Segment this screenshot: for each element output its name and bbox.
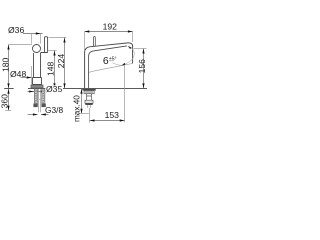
svg-text:max.40: max.40	[72, 95, 81, 122]
svg-text:180: 180	[0, 57, 10, 72]
svg-text:360: 360	[0, 94, 10, 109]
outlet extension line to 153 dim	[124, 65, 126, 122]
dim Ø36 extension lines	[32, 34, 41, 44]
dim 153 line	[90, 120, 125, 122]
dim 153 arrows	[90, 119, 95, 121]
angle 6° dimension arc	[122, 46, 135, 65]
svg-text:Ø35: Ø35	[46, 84, 62, 94]
svg-text:192: 192	[103, 22, 118, 32]
base tier 1	[33, 78, 42, 85]
dim G3/8 left segment with arrow	[28, 114, 38, 116]
svg-text:G3/8: G3/8	[45, 105, 63, 115]
spout outer outline	[85, 43, 133, 88]
dim max.40 extension line	[78, 113, 89, 115]
dim G3/8 right segment with arrow	[41, 114, 49, 116]
svg-text:148: 148	[46, 61, 56, 76]
dim 192 extension lines	[85, 32, 133, 51]
right hose nut	[41, 104, 45, 108]
dim 156 extension line	[134, 48, 147, 50]
body column	[34, 53, 41, 78]
center threaded rod	[39, 89, 41, 112]
dim Ø35 line with arrows	[28, 91, 46, 93]
dim 148 arrows	[53, 51, 55, 56]
dim 148 extension line	[48, 50, 57, 52]
lower connection nut	[85, 100, 93, 104]
mounting nut with hatch	[84, 91, 94, 94]
shank tube	[87, 94, 92, 100]
angle 6° leader line	[113, 63, 122, 66]
angle 6° arrowheads	[128, 46, 132, 49]
svg-text:224: 224	[56, 54, 66, 69]
dim 156 line	[143, 49, 145, 89]
dim 360 line	[8, 89, 10, 111]
base escutcheon tier 2	[31, 85, 43, 88]
pin handle	[94, 37, 96, 47]
tail below nut	[88, 105, 90, 108]
spout slab (edge-on)	[41, 37, 48, 53]
dim max.40 arrows	[80, 89, 82, 94]
dim 360 arrows	[7, 89, 9, 94]
dim Ø36 arrow	[36, 32, 41, 34]
knob handle circle	[33, 45, 41, 53]
left hose nut	[33, 104, 37, 108]
dim 360 bottom tick	[5, 110, 11, 112]
dim 180 arrows	[7, 45, 9, 50]
dim 180 extension line	[9, 44, 33, 46]
dim 180 line	[8, 45, 10, 89]
dim 224 arrows	[63, 38, 65, 43]
dim Ø48 extension line	[31, 66, 33, 85]
svg-text:Ø36: Ø36	[8, 25, 24, 35]
svg-text:156: 156	[137, 59, 147, 74]
mounting flange under deck	[82, 89, 95, 91]
dim Ø36 line	[23, 33, 43, 35]
axis extension line for 153 dim	[89, 108, 91, 123]
left hose braided column	[34, 89, 37, 104]
dim 192 arrows	[85, 30, 90, 32]
right hose braided column	[42, 89, 45, 104]
dim 192 line	[85, 31, 133, 33]
dim 224 line	[64, 38, 66, 89]
svg-text:6: 6	[103, 56, 109, 67]
dim 148 line	[54, 51, 56, 89]
dim max.40 line	[81, 89, 83, 114]
dim Ø48 leader line	[21, 77, 32, 79]
spout inner top line and riser back edge	[89, 46, 127, 88]
dim 156 arrows	[142, 49, 144, 54]
dim Ø48 arrow	[27, 76, 32, 78]
dim 224 extension line	[49, 37, 67, 39]
svg-text:153: 153	[105, 110, 120, 120]
deck line (counter surface)	[4, 88, 147, 90]
svg-text:±5°: ±5°	[109, 57, 117, 63]
dim Ø35 text white halo	[45, 85, 63, 93]
spout underside line	[89, 63, 133, 72]
